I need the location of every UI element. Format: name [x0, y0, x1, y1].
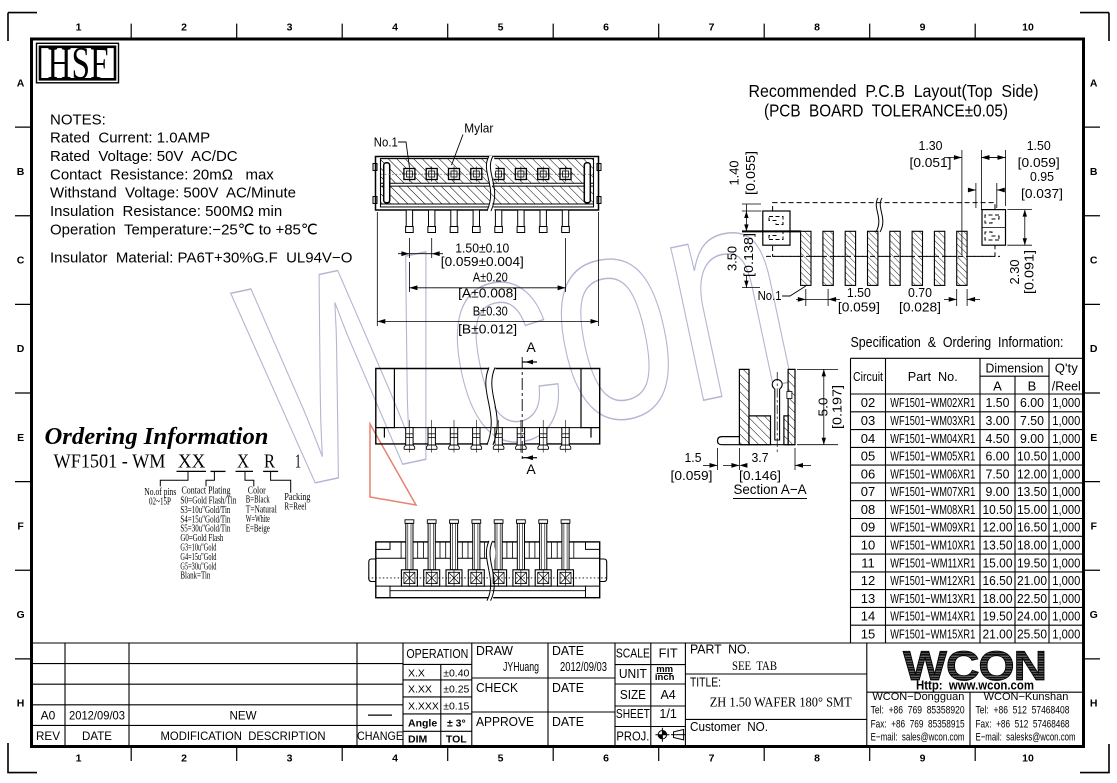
- svg-text:10: 10: [1022, 22, 1034, 34]
- svg-text:WF1501−WM04XR1: WF1501−WM04XR1: [890, 431, 975, 446]
- svg-text:[0.051]: [0.051]: [910, 156, 952, 170]
- top view connector body: [376, 157, 599, 211]
- pcb dim 1.40/3.50 left: [745, 204, 747, 231]
- svg-text:1,000: 1,000: [1052, 502, 1080, 517]
- front view right end step: [581, 369, 600, 438]
- svg-text:13.50: 13.50: [983, 537, 1013, 552]
- svg-text:10: 10: [1022, 753, 1034, 765]
- front view pins: [404, 420, 415, 453]
- svg-text:Circuit: Circuit: [853, 369, 883, 384]
- svg-text:ZH 1.50 WAFER 180° SMT: ZH 1.50 WAFER 180° SMT: [710, 694, 853, 709]
- svg-text:1,000: 1,000: [1052, 413, 1080, 428]
- svg-text:XX: XX: [178, 451, 206, 473]
- svg-text:Insulation Resistance: 500MΩ: Insulation Resistance: 500MΩ min: [50, 203, 282, 220]
- svg-text:10.50: 10.50: [1017, 449, 1047, 464]
- pcb dim 1.50 top right: [1005, 150, 1007, 206]
- svg-text:5: 5: [498, 22, 504, 34]
- svg-text:MODIFICATION DESCRIPTION: MODIFICATION DESCRIPTION: [161, 729, 326, 743]
- svg-text:19.50: 19.50: [983, 609, 1013, 624]
- bottom view dotted centerline: [368, 577, 607, 579]
- svg-text:WF1501 - WM: WF1501 - WM: [54, 451, 166, 473]
- svg-text:F: F: [17, 520, 24, 532]
- ordering underlines: [177, 470, 207, 472]
- svg-text:Angle: Angle: [408, 718, 437, 730]
- svg-text:6.00: 6.00: [1020, 395, 1044, 410]
- top view right mounting ears: [597, 164, 601, 171]
- svg-text:09: 09: [861, 520, 875, 535]
- svg-text:8: 8: [814, 22, 820, 34]
- svg-text:DRAW: DRAW: [476, 644, 513, 658]
- svg-text:[A±0.008]: [A±0.008]: [458, 286, 517, 300]
- svg-text:Q'ty: Q'ty: [1055, 361, 1078, 376]
- pcb dashed outline: [773, 203, 995, 257]
- svg-text:CHECK: CHECK: [476, 681, 519, 695]
- svg-text:2012/09/03: 2012/09/03: [69, 709, 125, 723]
- svg-text:2: 2: [181, 22, 187, 34]
- svg-text:05: 05: [861, 449, 875, 464]
- watermark red triangle: [370, 424, 416, 505]
- pcb dim 0.70 bottom: [956, 289, 958, 306]
- svg-text:24.00: 24.00: [1017, 609, 1047, 624]
- svg-text:SIZE: SIZE: [620, 688, 646, 702]
- svg-text:14: 14: [861, 609, 875, 624]
- svg-text:G: G: [17, 609, 25, 621]
- svg-text:Tel: +86 512 57468408: Tel: +86 512 57468408: [976, 705, 1070, 717]
- svg-text:1.50: 1.50: [847, 286, 871, 300]
- svg-text:WF1501−WM03XR1: WF1501−WM03XR1: [890, 413, 975, 428]
- svg-text:±0.15: ±0.15: [443, 701, 469, 713]
- svg-text:9.00: 9.00: [986, 484, 1010, 499]
- svg-text:21.00: 21.00: [983, 626, 1013, 641]
- grid ticks left/right: [15, 127, 1100, 659]
- svg-text:[0.055]: [0.055]: [744, 151, 758, 195]
- svg-text:Contact Resistance: 20mΩ ma: Contact Resistance: 20mΩ max: [50, 167, 274, 184]
- svg-text:19.50: 19.50: [1017, 555, 1047, 570]
- spec table grid: [851, 358, 1084, 643]
- svg-text:Fax: +86 769 85358915: Fax: +86 769 85358915: [871, 719, 965, 731]
- svg-text:16.50: 16.50: [1017, 520, 1047, 535]
- svg-text:15.00: 15.00: [983, 555, 1013, 570]
- svg-text:HSF: HSF: [48, 38, 109, 90]
- svg-text:6.00: 6.00: [986, 449, 1010, 464]
- svg-text:UNIT: UNIT: [619, 667, 647, 681]
- pcb dim 2.30 right: [1007, 209, 1032, 211]
- svg-text:1,000: 1,000: [1052, 431, 1080, 446]
- svg-text:A: A: [993, 379, 1002, 394]
- svg-text:1/1: 1/1: [659, 707, 676, 721]
- svg-text:NEW: NEW: [230, 709, 258, 723]
- svg-text:E−mail: sales@wcon.com: E−mail: sales@wcon.com: [871, 731, 965, 743]
- svg-text:E−mail: salesks@wcon.com: E−mail: salesks@wcon.com: [976, 731, 1076, 743]
- draw/check/approve block: [472, 643, 615, 746]
- svg-text:NOTES:: NOTES:: [50, 112, 106, 129]
- svg-text:04: 04: [861, 431, 875, 446]
- svg-text:A: A: [526, 461, 536, 477]
- svg-text:1: 1: [76, 753, 82, 765]
- svg-text:1,000: 1,000: [1052, 626, 1080, 641]
- svg-text:1,000: 1,000: [1052, 573, 1080, 588]
- svg-text:3.50: 3.50: [726, 246, 740, 271]
- svg-text:3: 3: [287, 22, 293, 34]
- svg-text:2012/09/03: 2012/09/03: [560, 660, 607, 674]
- svg-text:Withstand Voltage: 500V AC/M: Withstand Voltage: 500V AC/Minute: [50, 185, 296, 202]
- top view break line: [486, 156, 495, 211]
- svg-text:1: 1: [295, 451, 301, 473]
- svg-text:SCALE: SCALE: [616, 647, 650, 661]
- svg-text:A: A: [1090, 77, 1098, 89]
- svg-text:DIM: DIM: [408, 734, 428, 746]
- svg-text:PART NO.: PART NO.: [690, 643, 750, 657]
- svg-text:No.1: No.1: [758, 289, 782, 303]
- svg-text:1,000: 1,000: [1052, 537, 1080, 552]
- svg-text:12.00: 12.00: [983, 520, 1013, 535]
- svg-text:X.XX: X.XX: [408, 684, 432, 696]
- svg-text:TOL: TOL: [446, 734, 467, 746]
- svg-text:JYHuang: JYHuang: [503, 660, 539, 674]
- svg-text:APPROVE: APPROVE: [476, 715, 534, 729]
- svg-text:15: 15: [861, 626, 875, 641]
- svg-text:12.00: 12.00: [1017, 466, 1047, 481]
- svg-text:WF1501−WM06XR1: WF1501−WM06XR1: [890, 466, 975, 481]
- svg-text:4: 4: [392, 22, 398, 34]
- bottom view right rounded tab: [599, 559, 607, 582]
- svg-text:11: 11: [861, 555, 875, 570]
- svg-text:PROJ.: PROJ.: [616, 730, 649, 744]
- front view break line: [486, 368, 498, 445]
- section A-A bottom base hatched: [749, 416, 771, 445]
- grid ticks top/bottom: [131, 24, 975, 761]
- svg-text:7.50: 7.50: [986, 466, 1010, 481]
- svg-text:06: 06: [861, 466, 875, 481]
- pcb dim 1.50 bottom: [805, 289, 807, 306]
- svg-text:9.00: 9.00: [1020, 431, 1044, 446]
- svg-text:15.00: 15.00: [1017, 502, 1047, 517]
- pcb mid dashed centerline: [766, 255, 1000, 257]
- pcb left locating pad: [742, 211, 801, 245]
- svg-text:A4: A4: [660, 688, 675, 702]
- svg-text:8: 8: [814, 753, 820, 765]
- svg-text:1,000: 1,000: [1052, 484, 1080, 499]
- section A-A contact pin: [772, 380, 782, 390]
- pcb right locating pad: [982, 210, 1006, 246]
- svg-text:9: 9: [920, 22, 926, 34]
- svg-text:DATE: DATE: [552, 681, 584, 695]
- bottom view body outline: [376, 542, 600, 598]
- svg-text:6: 6: [603, 753, 609, 765]
- svg-text:A: A: [526, 339, 536, 355]
- svg-text:SHEET: SHEET: [616, 707, 650, 721]
- svg-text:3.7: 3.7: [752, 451, 769, 465]
- svg-text:C: C: [17, 255, 25, 267]
- svg-text:R: R: [264, 451, 276, 473]
- svg-text:A±0.20: A±0.20: [473, 270, 508, 284]
- svg-text:5: 5: [498, 753, 504, 765]
- svg-text:Dimension: Dimension: [986, 361, 1044, 376]
- svg-text:TITLE:: TITLE:: [690, 675, 721, 689]
- svg-text:No.1: No.1: [374, 135, 398, 149]
- scale/unit/size/sheet/proj block: [615, 643, 685, 746]
- svg-text:[0.059±0.004]: [0.059±0.004]: [441, 255, 524, 269]
- section A-A dim 1.5: [717, 448, 719, 470]
- pcb dim 0.95: [968, 189, 976, 191]
- svg-text:02: 02: [861, 395, 875, 410]
- svg-text:B: B: [17, 166, 25, 178]
- svg-text:7.50: 7.50: [1020, 413, 1044, 428]
- svg-text:16.50: 16.50: [983, 573, 1013, 588]
- svg-text:D: D: [17, 343, 25, 355]
- wcon logo block: [867, 692, 1084, 746]
- front view left end step: [376, 369, 395, 438]
- svg-text:WF1501−WM07XR1: WF1501−WM07XR1: [890, 484, 975, 499]
- svg-text:7: 7: [709, 22, 715, 34]
- svg-text:7: 7: [709, 753, 715, 765]
- svg-text:[0.059]: [0.059]: [671, 469, 713, 483]
- svg-text:3: 3: [287, 753, 293, 765]
- svg-text:±0.25: ±0.25: [443, 684, 469, 696]
- svg-text:Rated Voltage: 50V AC/DC: Rated Voltage: 50V AC/DC: [50, 148, 238, 165]
- front view shelf line: [394, 427, 581, 429]
- section A-A dim 3.7: [738, 448, 740, 470]
- svg-text:5.0: 5.0: [817, 397, 831, 416]
- svg-text:/Reel: /Reel: [1052, 379, 1081, 394]
- svg-text:B: B: [1028, 379, 1037, 394]
- top view bottom white strip: [381, 204, 593, 206]
- svg-text:22.50: 22.50: [1017, 591, 1047, 606]
- svg-text:[0.059]: [0.059]: [1018, 156, 1060, 170]
- svg-text:E=Beige: E=Beige: [246, 524, 270, 535]
- svg-text:[0.028]: [0.028]: [899, 301, 941, 315]
- bottom view rib lines: [401, 542, 574, 558]
- top view solder pins: [406, 210, 414, 233]
- svg-text:[0.197]: [0.197]: [831, 385, 845, 429]
- svg-text:02~15P: 02~15P: [149, 497, 171, 508]
- svg-text:Operation Temperature:−25℃ to: Operation Temperature:−25℃ to +85℃: [50, 222, 318, 239]
- title block outline: [32, 643, 1084, 746]
- svg-text:B±0.30: B±0.30: [473, 304, 508, 318]
- svg-text:X.X: X.X: [408, 667, 425, 679]
- svg-text:6: 6: [603, 22, 609, 34]
- svg-text:DATE: DATE: [82, 729, 112, 743]
- section A-A left wall hatched: [739, 369, 749, 444]
- svg-text:Tel: +86 769 85358920: Tel: +86 769 85358920: [871, 705, 965, 717]
- svg-text:A: A: [17, 77, 25, 89]
- svg-text:2.30: 2.30: [1008, 259, 1022, 284]
- svg-text:WF1501−WM11XR1: WF1501−WM11XR1: [890, 555, 975, 570]
- svg-text:(PCB BOARD TOLERANCE±0.05): (PCB BOARD TOLERANCE±0.05): [764, 101, 1008, 121]
- svg-text:1.40: 1.40: [728, 160, 742, 185]
- svg-text:D: D: [1090, 343, 1098, 355]
- HSF logo box: [37, 43, 119, 83]
- svg-text:12: 12: [861, 573, 875, 588]
- svg-text:B: B: [1090, 166, 1098, 178]
- dim A: [408, 262, 410, 292]
- svg-text:C: C: [1090, 255, 1098, 267]
- svg-text:R=Reel: R=Reel: [284, 502, 306, 513]
- svg-text:OPERATION: OPERATION: [406, 647, 468, 661]
- svg-text:4: 4: [392, 753, 398, 765]
- svg-text:1,000: 1,000: [1052, 520, 1080, 535]
- svg-text:WF1501−WM13XR1: WF1501−WM13XR1: [890, 591, 975, 606]
- svg-text:Specification & Ordering In: Specification & Ordering Information:: [851, 335, 1064, 351]
- svg-text:3.00: 3.00: [986, 413, 1010, 428]
- svg-text:WF1501−WM08XR1: WF1501−WM08XR1: [890, 502, 975, 517]
- svg-text:F: F: [1090, 520, 1097, 532]
- svg-text:X.XXX: X.XXX: [408, 701, 439, 713]
- svg-text:Section A−A: Section A−A: [734, 481, 808, 497]
- bottom view corner steps: [376, 542, 600, 550]
- svg-text:H: H: [1090, 698, 1098, 710]
- svg-text:1,000: 1,000: [1052, 609, 1080, 624]
- svg-text:1,000: 1,000: [1052, 591, 1080, 606]
- svg-text:Part No.: Part No.: [908, 369, 958, 384]
- section A-A right wall hatched: [788, 369, 795, 444]
- svg-text:CHANGE: CHANGE: [357, 729, 403, 743]
- svg-text:WF1501−WM02XR1: WF1501−WM02XR1: [890, 395, 975, 410]
- svg-text:1.50±0.10: 1.50±0.10: [455, 242, 509, 256]
- svg-text:± 3°: ± 3°: [447, 718, 466, 730]
- svg-text:[0.138]: [0.138]: [742, 233, 756, 277]
- bottom view left rounded tab: [369, 559, 377, 582]
- dim B: [376, 212, 378, 326]
- svg-text:4.50: 4.50: [986, 431, 1010, 446]
- top view left mounting ears: [373, 164, 377, 171]
- svg-text:0.70: 0.70: [908, 286, 932, 300]
- svg-text:Ordering Information: Ordering Information: [45, 424, 269, 450]
- svg-text:10.50: 10.50: [983, 502, 1013, 517]
- pcb smt pads hatched: [801, 231, 811, 285]
- svg-text:1,000: 1,000: [1052, 449, 1080, 464]
- svg-text:DATE: DATE: [552, 715, 584, 729]
- svg-text:Mylar: Mylar: [464, 122, 493, 136]
- section A-A dim 5.0 right: [797, 368, 838, 370]
- svg-text:[B±0.012]: [B±0.012]: [458, 323, 517, 337]
- svg-text:[0.059]: [0.059]: [838, 301, 880, 315]
- bottom view pin tabs: [405, 520, 414, 570]
- svg-text:Insulator Material: PA6T+30%G: Insulator Material: PA6T+30%G.F UL94V−O: [50, 250, 352, 267]
- svg-text:E: E: [17, 432, 24, 444]
- svg-text:inch: inch: [655, 672, 675, 683]
- svg-text:2: 2: [181, 753, 187, 765]
- bottom view contact pads hatched squares: [401, 570, 417, 586]
- svg-text:1.50: 1.50: [1027, 139, 1051, 153]
- pcb dim 1.30 top: [961, 150, 963, 255]
- svg-text:1,000: 1,000: [1052, 466, 1080, 481]
- top view mid horizontal white gap: [381, 183, 593, 186]
- svg-text:08: 08: [861, 502, 875, 517]
- svg-text:07: 07: [861, 484, 875, 499]
- svg-text:Recommended P.C.B Layout(Top: Recommended P.C.B Layout(Top Side): [749, 81, 1039, 101]
- svg-text:WF1501−WM15XR1: WF1501−WM15XR1: [890, 626, 975, 641]
- svg-text:H: H: [17, 698, 25, 710]
- ordering leader lines: [160, 472, 290, 493]
- svg-text:SEE TAB: SEE TAB: [732, 658, 777, 673]
- svg-text:Blank=Tin: Blank=Tin: [180, 571, 210, 582]
- svg-text:1: 1: [76, 22, 82, 34]
- svg-text:Fax: +86 512 57468468: Fax: +86 512 57468468: [976, 719, 1070, 731]
- svg-text:1,000: 1,000: [1052, 555, 1080, 570]
- svg-text:WF1501−WM14XR1: WF1501−WM14XR1: [890, 609, 975, 624]
- top view contact pads row: [402, 167, 417, 182]
- projection symbol: [655, 728, 686, 742]
- svg-text:WF1501−WM12XR1: WF1501−WM12XR1: [890, 573, 975, 588]
- top view inner hatched area: [381, 159, 594, 207]
- svg-text:Rated Current: 1.0AMP: Rated Current: 1.0AMP: [50, 130, 210, 147]
- top view right end slot: [584, 163, 590, 203]
- svg-text:G: G: [1090, 609, 1098, 621]
- svg-text:WF1501−WM09XR1: WF1501−WM09XR1: [890, 520, 975, 535]
- svg-text:WF1501−WM05XR1: WF1501−WM05XR1: [890, 449, 975, 464]
- svg-text:1.50: 1.50: [986, 395, 1010, 410]
- section cut line A-A: [521, 357, 523, 462]
- svg-text:13: 13: [861, 591, 875, 606]
- svg-text:13.50: 13.50: [1017, 484, 1047, 499]
- top view left end slot: [384, 163, 390, 203]
- top view pad row dotted centerline: [381, 173, 593, 175]
- svg-text:WCON−Kunshan: WCON−Kunshan: [984, 691, 1069, 703]
- bottom view top band lines: [376, 557, 600, 559]
- svg-text:1.5: 1.5: [685, 451, 702, 465]
- svg-text:A0: A0: [41, 709, 56, 723]
- svg-text:10: 10: [861, 537, 875, 552]
- svg-text:18.00: 18.00: [1017, 537, 1047, 552]
- svg-text:18.00: 18.00: [983, 591, 1013, 606]
- svg-text:WF1501−WM10XR1: WF1501−WM10XR1: [890, 537, 975, 552]
- section A-A smt lead foot: [718, 437, 796, 445]
- bottom view break line: [486, 541, 495, 601]
- svg-text:9: 9: [920, 753, 926, 765]
- svg-text:FIT: FIT: [659, 647, 678, 661]
- svg-text:25.50: 25.50: [1017, 626, 1047, 641]
- svg-text:Customer NO.: Customer NO.: [690, 720, 768, 734]
- svg-text:[0.037]: [0.037]: [1021, 187, 1063, 201]
- svg-text:1,000: 1,000: [1052, 395, 1080, 410]
- part no / title / customer block: [685, 643, 866, 746]
- svg-text:X: X: [237, 451, 249, 473]
- svg-text:±0.40: ±0.40: [443, 667, 469, 679]
- operation tolerance block: [403, 643, 472, 746]
- dim 1.50 pitch: [408, 238, 410, 258]
- svg-text:1.30: 1.30: [919, 139, 943, 153]
- svg-text:21.00: 21.00: [1017, 573, 1047, 588]
- svg-text:03: 03: [861, 413, 875, 428]
- svg-text:DATE: DATE: [552, 644, 584, 658]
- svg-text:WCON−Dongguan: WCON−Dongguan: [872, 691, 964, 703]
- svg-text:[0.091]: [0.091]: [1023, 250, 1037, 294]
- pcb break line: [876, 198, 883, 232]
- front view body outline: [376, 369, 600, 444]
- svg-text:REV: REV: [36, 729, 60, 743]
- svg-text:E: E: [1090, 432, 1097, 444]
- svg-text:0.95: 0.95: [1030, 170, 1054, 184]
